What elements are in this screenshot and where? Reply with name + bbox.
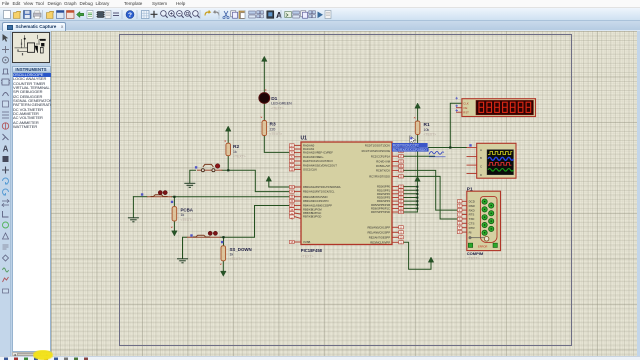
svg-text:RA0/AN0: RA0/AN0 [303, 144, 315, 148]
wire RD0 stub [400, 186, 418, 188]
svg-text:D: D [480, 173, 482, 177]
wire U1 RX to P1 TXD [400, 176, 459, 219]
power arrow at MCLR [428, 257, 434, 262]
svg-text:RE3/MCLR/VPP: RE3/MCLR/VPP [370, 240, 390, 244]
svg-text:RE0/AN5/CK1SPP: RE0/AN5/CK1SPP [367, 225, 390, 229]
svg-text:RD4/SPP4: RD4/SPP4 [377, 199, 391, 203]
svg-text:CLK: CLK [463, 101, 469, 105]
power arrow above D1 [261, 56, 267, 61]
power arrow above R2 [225, 126, 231, 131]
svg-text:RC7/RX/DT/CCP2/SDO: RC7/RX/DT/CCP2/SDO [393, 148, 428, 152]
svg-text:10k: 10k [424, 128, 430, 132]
svg-text:RA1/AN1: RA1/AN1 [303, 147, 315, 151]
svg-text:DSR: DSR [469, 204, 475, 208]
wire VCC arrow to R1 [417, 108, 419, 121]
resistor PCBA [171, 207, 194, 228]
left tool icons svg [0, 31, 11, 356]
svg-text:1k: 1k [233, 150, 237, 154]
toolbar icons svg goes here [0, 8, 640, 21]
junction RD3 on bus [416, 197, 418, 199]
7-segment display module [455, 97, 535, 117]
power arrow on RD bus [415, 176, 421, 181]
wire RD4 stub [400, 200, 418, 202]
svg-text:RC6/TX/CK/CCP2: RC6/TX/CK/CCP2 [393, 144, 419, 148]
svg-text:RB6/KBI2/PGC: RB6/KBI2/PGC [303, 211, 321, 215]
svg-text:RST: RST [463, 110, 469, 114]
wire RD6 stub [400, 207, 418, 209]
LED D1 [259, 89, 292, 110]
svg-text:<TEXT>: <TEXT> [424, 132, 437, 136]
wire button1 node to U1 RB1 [222, 170, 295, 191]
resistor SS_DOWN [220, 246, 252, 265]
junction RD1 on bus [416, 189, 418, 191]
svg-text:RB5/KBI1/PGM: RB5/KBI1/PGM [303, 208, 322, 212]
svg-text:RD3/SPP3: RD3/SPP3 [377, 196, 391, 200]
svg-text:RC7/RX/DT/SDO: RC7/RX/DT/SDO [369, 175, 390, 179]
svg-text:RE1/AN6/CK2SPP: RE1/AN6/CK2SPP [367, 230, 390, 234]
svg-text:<TEXT>: <TEXT> [230, 257, 243, 261]
resistor R3 [261, 117, 282, 136]
svg-text:RD5/SPP5/P1B: RD5/SPP5/P1B [371, 203, 390, 207]
wire U1 MCLR to power [400, 242, 432, 269]
svg-text:RC4/D-/VM: RC4/D-/VM [376, 160, 390, 164]
wire RD3 stub [400, 197, 418, 199]
svg-text:<TEXT>: <TEXT> [467, 257, 480, 261]
switch3 [187, 231, 223, 243]
svg-text:RA2/AN2/VREF-/CVREF: RA2/AN2/VREF-/CVREF [303, 151, 333, 155]
svg-text:RD1/SPP1: RD1/SPP1 [377, 188, 391, 192]
svg-text:<TEXT>: <TEXT> [271, 106, 284, 110]
svg-text:LED-GREEN: LED-GREEN [271, 102, 292, 106]
svg-text:U1: U1 [301, 136, 308, 142]
svg-text:RC2/CCP1/P1A: RC2/CCP1/P1A [371, 154, 390, 158]
wire node to PCBA resistor [173, 197, 175, 207]
svg-text:SS_DOWN: SS_DOWN [230, 247, 252, 252]
svg-text:DCD: DCD [469, 200, 475, 204]
wire VCC arrow to R2 [227, 131, 229, 143]
svg-text:RA3/AN3/VREF+: RA3/AN3/VREF+ [303, 155, 324, 159]
svg-text:RB0/AN12/INT0/FLT0/SDI/SDA: RB0/AN12/INT0/FLT0/SDI/SDA [303, 185, 341, 189]
svg-text:ERROR: ERROR [478, 244, 487, 248]
connector P1 COMPIM [457, 186, 500, 260]
down arrow below SS_DOWN [221, 271, 227, 276]
wire PCBA to down arrow [173, 221, 175, 231]
wire RD1 stub [400, 189, 418, 191]
svg-text:A: A [3, 145, 9, 154]
wire LED D1 to R3 [263, 103, 265, 120]
svg-text:PCBA: PCBA [181, 207, 194, 212]
svg-text:A: A [480, 148, 482, 152]
junction switch2/PCBA node [173, 196, 175, 198]
svg-text:RB7/KBI3/PGD: RB7/KBI3/PGD [303, 215, 321, 219]
resistor R1 [414, 117, 436, 136]
svg-text:RB2/AN8/INT2/VMO: RB2/AN8/INT2/VMO [303, 195, 328, 199]
svg-text:RC6/TX/CK: RC6/TX/CK [376, 169, 390, 173]
wire VCC arrow to U1 RB0 [269, 181, 295, 187]
svg-text:TXD: TXD [469, 217, 475, 221]
wire SS_DOWN to down arrow [222, 261, 224, 271]
junction display CLK wire on net [449, 146, 451, 148]
svg-text:RE2/AN7/OESPP: RE2/AN7/OESPP [369, 235, 390, 239]
junction RD2 on bus [416, 193, 418, 195]
junction switch3/SS_DOWN node [222, 236, 224, 238]
svg-text:COMPIM: COMPIM [467, 251, 484, 256]
wire RC2 stub [400, 155, 435, 157]
svg-text:RA4/T0CKI/C1OUT/RCV: RA4/T0CKI/C1OUT/RCV [303, 159, 333, 163]
switch2 [141, 191, 173, 204]
oscilloscope instrument [467, 143, 517, 178]
svg-text:RTS: RTS [469, 213, 475, 217]
svg-text:RC0/T1OSO/T13CKI: RC0/T1OSO/T13CKI [365, 144, 390, 148]
ground below switch3 [177, 259, 188, 263]
wire R2 to button node [227, 156, 229, 171]
svg-text:OE: OE [463, 106, 467, 110]
junction RD5 on bus [416, 204, 418, 206]
svg-text:RC1/T1OSI/CCP2/UOE: RC1/T1OSI/CCP2/UOE [362, 149, 391, 153]
svg-text:RXD: RXD [469, 208, 475, 212]
wire R1 down through selected net [417, 135, 419, 176]
junction RD4 on bus [416, 200, 418, 202]
svg-text:RD7/SPP7/P1D: RD7/SPP7/P1D [371, 210, 390, 214]
svg-text:PIC18F458: PIC18F458 [301, 248, 323, 253]
svg-text:?: ? [128, 12, 132, 19]
wire switch2 left to ground [132, 197, 134, 218]
wire U1 TX to P1 RXD [400, 170, 459, 210]
selected net labels RC6/RC7 [392, 143, 446, 157]
svg-text:RD2/SPP2: RD2/SPP2 [377, 192, 391, 196]
power arrow above R1 [415, 103, 421, 108]
svg-text:C: C [480, 165, 482, 169]
svg-text:RI: RI [469, 230, 472, 234]
svg-text:RB4/AN11/KBI0/CSSPP: RB4/AN11/KBI0/CSSPP [303, 204, 332, 208]
junction RD6 on bus [416, 208, 418, 210]
svg-text:VUSB: VUSB [303, 240, 311, 244]
svg-text:1k: 1k [230, 253, 234, 257]
preview mini schematic [13, 33, 51, 64]
wire node to SS_DOWN resistor [223, 237, 225, 246]
wire RD5 stub [400, 204, 418, 206]
junction RD0 on bus [416, 186, 418, 188]
microcontroller U1 PIC18F458 [289, 136, 403, 259]
wire power arrow to RD bus [416, 181, 418, 212]
sheet border [120, 35, 572, 346]
ground below switch2 [128, 218, 139, 222]
button1 [195, 164, 223, 172]
resistor R2 [225, 140, 246, 158]
wire display CLK [450, 103, 462, 147]
svg-text:RB1/AN10/INT1/SCK/SCL: RB1/AN10/INT1/SCK/SCL [303, 190, 335, 194]
junction R2/button1 node [227, 169, 229, 171]
svg-text:<TEXT>: <TEXT> [270, 132, 283, 136]
svg-text:<TEXT>: <TEXT> [301, 255, 314, 259]
svg-text:<TEXT>: <TEXT> [233, 155, 246, 159]
wire switch3 left to ground [183, 237, 187, 258]
svg-text:RB3/AN9/CCP2/VPO: RB3/AN9/CCP2/VPO [303, 199, 329, 203]
mouse cursor [410, 136, 416, 144]
svg-text:DTR: DTR [469, 226, 475, 230]
wire switch2 net to U1 RB2 [133, 196, 147, 198]
svg-text:RA5/AN4/SS/LVDIN/C2OUT: RA5/AN4/SS/LVDIN/C2OUT [303, 163, 337, 167]
power arrow at RB0 [266, 176, 272, 181]
svg-text:220: 220 [270, 127, 276, 131]
down arrow below PCBA [172, 231, 178, 236]
svg-text:B: B [480, 156, 482, 160]
wire selected net to oscilloscope A [429, 147, 467, 149]
wire switch3 node to U1 RB5 [221, 206, 295, 238]
svg-text:RD0/SPP0: RD0/SPP0 [377, 185, 391, 189]
svg-text:OSC1/CLKI: OSC1/CLKI [303, 168, 317, 172]
ground below button1 [184, 183, 195, 187]
wire R3 to U1 RA2 [264, 136, 294, 153]
svg-text:RD6/SPP6/P1C: RD6/SPP6/P1C [371, 207, 390, 211]
svg-text:1k: 1k [181, 213, 185, 217]
wire RD7 stub [400, 211, 418, 213]
svg-text:<TEXT>: <TEXT> [181, 218, 194, 222]
wire RD2 stub [400, 193, 418, 195]
wire button1 left to ground [190, 170, 196, 183]
wire switch2 right to chip [172, 196, 295, 198]
svg-text:RC5/D+/VP: RC5/D+/VP [376, 164, 390, 168]
wire VCC to LED D1 [263, 61, 265, 93]
svg-text:CTS: CTS [469, 222, 475, 226]
junction R1 wire on net [417, 146, 419, 148]
